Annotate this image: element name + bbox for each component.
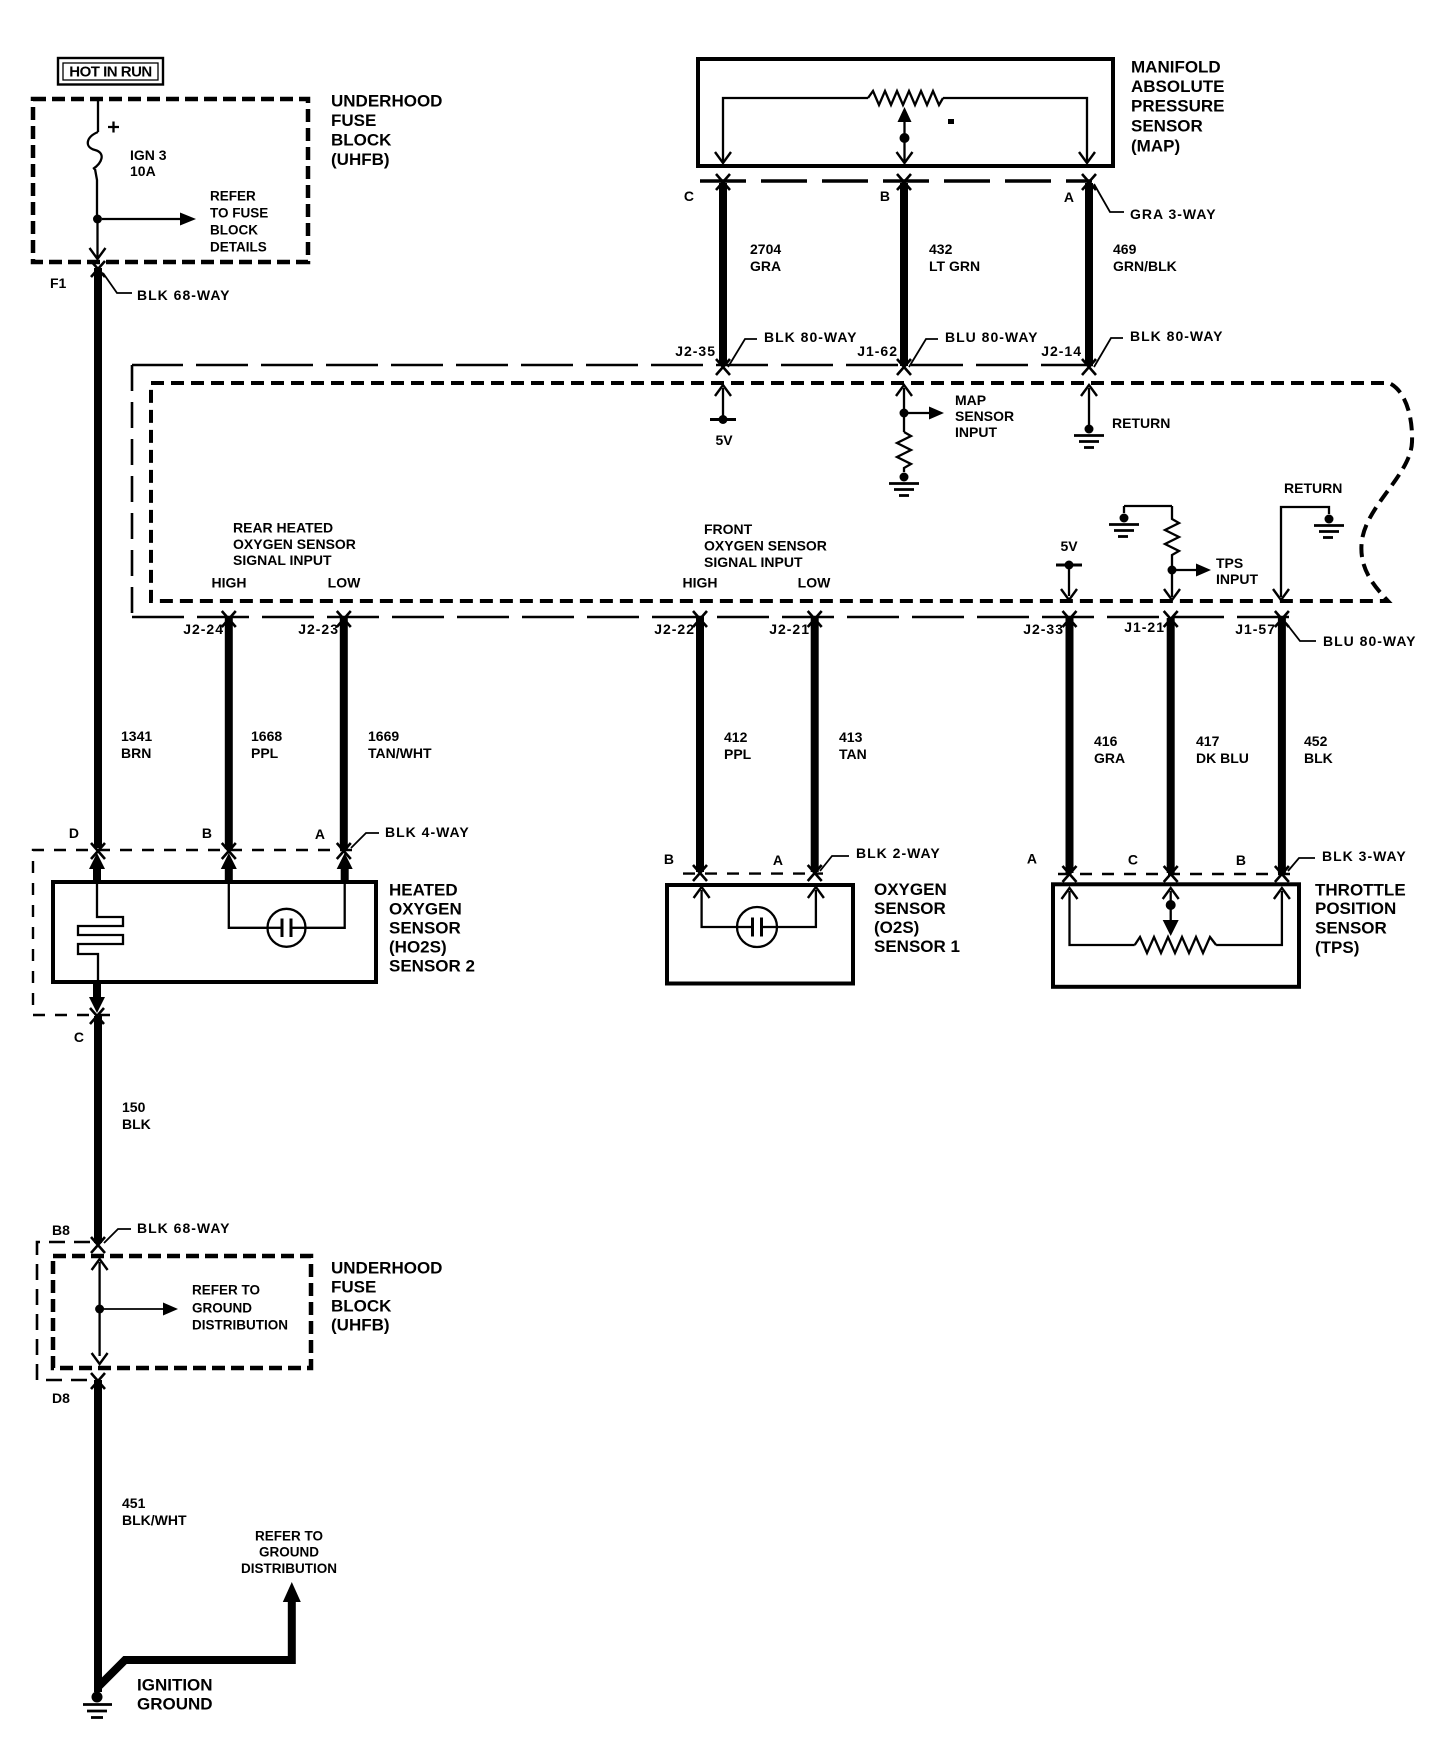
- HO2S pin stub D with arrow: [93, 862, 101, 884]
- wire 2704 GRA (MAP C to PCM J2-35): [719, 183, 727, 366]
- svg-text:(O2S): (O2S): [874, 918, 919, 937]
- svg-text:SENSOR: SENSOR: [874, 899, 946, 918]
- svg-text:SENSOR 2: SENSOR 2: [389, 957, 475, 976]
- terminal X at F1: [91, 261, 105, 277]
- connector label BLK 80-WAY at J2-14: [1094, 328, 1224, 367]
- potentiometer right lead: [943, 98, 1087, 162]
- svg-text:BLU 80-WAY: BLU 80-WAY: [945, 329, 1039, 345]
- terminal X at HO2S D: [91, 843, 105, 859]
- underhood fuse block UHFB (top) dashed box: [33, 99, 308, 262]
- underhood fuse block UHFB (lower) dashed box: [53, 1256, 311, 1368]
- svg-text:(HO2S): (HO2S): [389, 938, 447, 957]
- svg-text:J2-23: J2-23: [298, 621, 339, 637]
- UHFB lower connector bracket: [37, 1242, 90, 1380]
- svg-text:LOW: LOW: [328, 575, 361, 591]
- svg-text:REAR HEATED: REAR HEATED: [233, 520, 333, 536]
- node 5V (at J2-35): [710, 385, 736, 448]
- svg-text:469: 469: [1113, 241, 1137, 257]
- node TPS INPUT (at J1-21): [1164, 555, 1258, 600]
- terminal X at HO2S A: [337, 843, 351, 859]
- svg-text:A: A: [773, 852, 783, 868]
- svg-text:IGNITION: IGNITION: [137, 1676, 213, 1695]
- ground (PCM internal, at J2-14): [1074, 425, 1104, 448]
- O2 sense cell (circle with plates) pins B A: [229, 884, 345, 947]
- connector label BLK 68-WAY: [103, 273, 231, 303]
- svg-text:150: 150: [122, 1099, 146, 1115]
- svg-text:J1-21: J1-21: [1124, 619, 1165, 635]
- svg-text:OXYGEN: OXYGEN: [874, 880, 947, 899]
- svg-text:413: 413: [839, 729, 863, 745]
- svg-text:J2-24: J2-24: [183, 621, 224, 637]
- svg-text:C: C: [684, 188, 694, 204]
- svg-text:REFER TO: REFER TO: [192, 1283, 260, 1298]
- svg-text:DK BLU: DK BLU: [1196, 750, 1249, 766]
- svg-text:B: B: [880, 188, 890, 204]
- wire 150 BLK (HO2S C to UHFB B8): [94, 1016, 102, 1243]
- svg-text:TAN/WHT: TAN/WHT: [368, 745, 432, 761]
- svg-text:B: B: [1236, 852, 1246, 868]
- wire 469 GRN/BLK (MAP A to PCM J2-14): [1085, 183, 1093, 366]
- svg-text:TAN: TAN: [839, 746, 867, 762]
- svg-text:DISTRIBUTION: DISTRIBUTION: [192, 1318, 288, 1333]
- wire 413 TAN (J2-21 to O2S A): [811, 618, 819, 872]
- wire ground to TPS resistor: [1124, 505, 1172, 507]
- ground (PCM internal, MAP): [889, 473, 919, 496]
- label UNDERHOOD FUSE BLOCK (UHFB): [331, 92, 442, 170]
- svg-text:HIGH: HIGH: [683, 575, 718, 591]
- svg-text:5V: 5V: [715, 432, 733, 448]
- connector label BLK 68-WAY (B8): [104, 1220, 231, 1243]
- resistor inside PCM (TPS pull-up): [1165, 506, 1179, 597]
- svg-text:BLOCK: BLOCK: [210, 223, 258, 238]
- svg-text:FUSE: FUSE: [331, 111, 376, 130]
- wire into fuse: [97, 99, 99, 132]
- svg-text:A: A: [315, 826, 325, 842]
- svg-text:BLU 80-WAY: BLU 80-WAY: [1323, 633, 1417, 649]
- svg-text:OXYGEN SENSOR: OXYGEN SENSOR: [704, 538, 827, 554]
- label OXYGEN SENSOR (O2S) SENSOR 1: [874, 880, 960, 956]
- svg-text:416: 416: [1094, 733, 1118, 749]
- svg-text:2704: 2704: [750, 241, 781, 257]
- svg-text:GROUND: GROUND: [137, 1695, 213, 1714]
- svg-text:GROUND: GROUND: [259, 1545, 319, 1560]
- branch to ground distribution (thick L with arrow): [98, 1529, 337, 1692]
- terminal X at HO2S B: [222, 843, 236, 859]
- svg-text:FRONT: FRONT: [704, 521, 753, 537]
- TPS connector face BLK 3-WAY: [1058, 873, 1290, 875]
- ground (PCM internal, TPS top): [1109, 506, 1139, 537]
- svg-text:MANIFOLD: MANIFOLD: [1131, 58, 1221, 77]
- svg-text:LOW: LOW: [798, 575, 831, 591]
- svg-text:PRESSURE: PRESSURE: [1131, 97, 1225, 116]
- svg-text:SENSOR: SENSOR: [1131, 117, 1203, 136]
- svg-text:SIGNAL INPUT: SIGNAL INPUT: [704, 554, 803, 570]
- connector label BLK 3-WAY: [1288, 848, 1407, 871]
- label MANIFOLD ABSOLUTE PRESSURE SENSOR (MAP): [1131, 58, 1225, 156]
- svg-text:5V: 5V: [1060, 538, 1078, 554]
- svg-text:GRA 3-WAY: GRA 3-WAY: [1130, 206, 1217, 222]
- wire 432 LT GRN (MAP B to PCM J1-62): [900, 183, 908, 366]
- label THROTTLE POSITION SENSOR (TPS): [1315, 881, 1406, 958]
- MAP connector face line GRA 3-WAY: [700, 179, 1092, 183]
- svg-text:PPL: PPL: [251, 745, 279, 761]
- svg-text:BLOCK: BLOCK: [331, 1297, 392, 1316]
- label UNDERHOOD FUSE BLOCK (UHFB) lower: [331, 1259, 442, 1335]
- wire 1668 PPL (J2-24 to HO2S B): [225, 618, 233, 849]
- svg-text:1668: 1668: [251, 728, 282, 744]
- wire 412 PPL (J2-22 to O2S B): [696, 618, 704, 872]
- label FRONT OXYGEN SENSOR SIGNAL INPUT: [683, 521, 832, 591]
- svg-text:(MAP): (MAP): [1131, 137, 1180, 156]
- svg-text:MAP: MAP: [955, 392, 986, 408]
- svg-text:J2-33: J2-33: [1023, 621, 1064, 637]
- O2S box: [667, 885, 853, 984]
- svg-text:B: B: [664, 851, 674, 867]
- HO2S pin stub B with arrow: [225, 862, 233, 884]
- node RETURN (at J1-57): [1273, 480, 1342, 600]
- TPS wiper: [1163, 891, 1179, 936]
- arrowhead down right pin A: [1079, 152, 1095, 163]
- TPS potentiometer: [1062, 888, 1290, 953]
- label IGNITION GROUND: [137, 1676, 213, 1714]
- svg-text:BLK 3-WAY: BLK 3-WAY: [1322, 848, 1407, 864]
- TPS box: [1053, 884, 1299, 987]
- svg-text:B: B: [202, 825, 212, 841]
- wire F1 to HO2S pin D (thick): [94, 268, 102, 848]
- svg-text:(UHFB): (UHFB): [331, 150, 390, 169]
- O2S internal arrows and cell: [694, 887, 824, 947]
- node 5V (at J2-33): [1056, 538, 1082, 600]
- connector label BLK 80-WAY at J2-35: [728, 329, 858, 367]
- svg-text:TO FUSE: TO FUSE: [210, 206, 268, 221]
- svg-text:C: C: [74, 1029, 84, 1045]
- svg-text:IGN 3: IGN 3: [130, 147, 167, 163]
- label REAR HEATED OXYGEN SENSOR SIGNAL INPUT: [212, 520, 362, 591]
- potentiometer in MAP: left lead: [723, 98, 868, 162]
- svg-text:F1: F1: [50, 275, 67, 291]
- internal wire with junction (lower UHFB): [92, 1259, 108, 1364]
- terminal X at D8: [91, 1373, 105, 1389]
- svg-text:UNDERHOOD: UNDERHOOD: [331, 1259, 442, 1278]
- connector label BLU 80-WAY (bottom): [1286, 623, 1417, 649]
- wire 452 BLK (J1-57 to TPS B): [1278, 618, 1286, 873]
- connector label BLK 2-WAY: [820, 845, 941, 871]
- svg-text:(UHFB): (UHFB): [331, 1316, 390, 1335]
- svg-text:HEATED: HEATED: [389, 881, 458, 900]
- svg-text:J2-14: J2-14: [1041, 343, 1082, 359]
- wire 416 GRA (J2-33 to TPS A): [1066, 618, 1074, 873]
- connector label GRA 3-WAY: [1094, 184, 1217, 222]
- svg-text:BLK 68-WAY: BLK 68-WAY: [137, 287, 231, 303]
- svg-text:INPUT: INPUT: [1216, 571, 1258, 587]
- svg-text:D8: D8: [52, 1390, 70, 1406]
- svg-text:THROTTLE: THROTTLE: [1315, 881, 1406, 900]
- terminal X at HO2S C: [90, 1008, 104, 1024]
- PCM connector bracket (outer dash-dot): [132, 364, 1093, 367]
- svg-text:REFER TO: REFER TO: [255, 1529, 323, 1544]
- svg-text:BLK/WHT: BLK/WHT: [122, 1512, 187, 1528]
- svg-text:INPUT: INPUT: [955, 424, 997, 440]
- svg-text:GRN/BLK: GRN/BLK: [1113, 258, 1177, 274]
- svg-text:A: A: [1027, 850, 1037, 866]
- svg-text:J1-62: J1-62: [857, 343, 898, 359]
- node MAP SENSOR INPUT (at J1-62): [896, 385, 1014, 440]
- svg-text:412: 412: [724, 729, 748, 745]
- svg-text:BLK 2-WAY: BLK 2-WAY: [856, 845, 941, 861]
- svg-text:PPL: PPL: [724, 746, 752, 762]
- wire fuse to junction dot: [95, 169, 97, 219]
- MAP sensor box: [698, 59, 1113, 166]
- svg-text:RETURN: RETURN: [1284, 480, 1342, 496]
- svg-text:J2-35: J2-35: [675, 343, 716, 359]
- connector label BLU 80-WAY at J1-62: [909, 329, 1039, 367]
- potentiometer resistor zigzag: [868, 91, 943, 105]
- resistor inside PCM (MAP pull-up): [897, 432, 911, 472]
- svg-text:DETAILS: DETAILS: [210, 240, 267, 255]
- svg-text:1341: 1341: [121, 728, 152, 744]
- svg-text:BLK: BLK: [122, 1116, 151, 1132]
- connector label BLK 4-WAY: [351, 824, 470, 848]
- arrow to REFER TO GROUND DISTRIBUTION (lower UHFB): [104, 1283, 288, 1333]
- arrowhead down left pin C: [715, 152, 731, 163]
- svg-text:432: 432: [929, 241, 953, 257]
- svg-text:HIGH: HIGH: [212, 575, 247, 591]
- svg-text:GRA: GRA: [1094, 750, 1125, 766]
- svg-text:B8: B8: [52, 1222, 70, 1238]
- svg-text:BLOCK: BLOCK: [331, 131, 392, 150]
- svg-text:DISTRIBUTION: DISTRIBUTION: [241, 1561, 337, 1576]
- svg-text:REFER: REFER: [210, 189, 256, 204]
- svg-text:BLK: BLK: [1304, 750, 1333, 766]
- svg-text:GROUND: GROUND: [192, 1301, 252, 1316]
- svg-text:10A: 10A: [130, 163, 156, 179]
- svg-text:417: 417: [1196, 733, 1220, 749]
- node RETURN (at J2-14): [1081, 385, 1170, 431]
- svg-text:OXYGEN SENSOR: OXYGEN SENSOR: [233, 536, 356, 552]
- HO2S bottom stub pin C with down arrow: [93, 982, 101, 1001]
- ground (PCM internal, TPS return): [1314, 515, 1344, 538]
- svg-text:FUSE: FUSE: [331, 1278, 376, 1297]
- svg-text:(TPS): (TPS): [1315, 938, 1359, 957]
- svg-text:LT GRN: LT GRN: [929, 258, 980, 274]
- svg-text:SENSOR: SENSOR: [1315, 919, 1387, 938]
- fuse IGN 3 10A: [88, 122, 167, 180]
- svg-text:J2-22: J2-22: [654, 621, 695, 637]
- svg-text:1669: 1669: [368, 728, 399, 744]
- svg-text:BLK 68-WAY: BLK 68-WAY: [137, 1220, 231, 1236]
- svg-text:BLK 4-WAY: BLK 4-WAY: [385, 824, 470, 840]
- svg-text:BLK 80-WAY: BLK 80-WAY: [764, 329, 858, 345]
- HO2S connector face BLK 4-WAY (dashed wrap): [33, 850, 352, 1015]
- svg-text:UNDERHOOD: UNDERHOOD: [331, 92, 442, 111]
- wiper arrow of potentiometer: [898, 107, 912, 122]
- O2S connector face BLK 2-WAY: [683, 872, 823, 874]
- svg-text:GRA: GRA: [750, 258, 781, 274]
- PCM module outline (inner dashed with torn right edge): [151, 383, 1412, 601]
- svg-text:SENSOR 1: SENSOR 1: [874, 937, 960, 956]
- svg-text:C: C: [1128, 851, 1138, 867]
- stray scan mark: [948, 119, 954, 124]
- svg-text:BRN: BRN: [121, 745, 151, 761]
- junction dot: [93, 215, 102, 224]
- svg-text:SENSOR: SENSOR: [389, 919, 461, 938]
- ignition ground symbol: [83, 1692, 112, 1718]
- hot-in-run banner: [58, 58, 163, 85]
- arrow to REFER TO FUSE BLOCK DETAILS: [102, 189, 268, 255]
- label HEATED OXYGEN SENSOR (HO2S) SENSOR 2: [389, 881, 475, 976]
- svg-text:451: 451: [122, 1495, 146, 1511]
- svg-text:SENSOR: SENSOR: [955, 408, 1014, 424]
- svg-text:ABSOLUTE: ABSOLUTE: [1131, 77, 1225, 96]
- svg-text:A: A: [1064, 189, 1074, 205]
- svg-text:OXYGEN: OXYGEN: [389, 900, 462, 919]
- heater element (meander): [78, 884, 123, 982]
- wire 1669 TAN/WHT (J2-23 to HO2S A): [340, 618, 348, 849]
- svg-text:TPS: TPS: [1216, 555, 1243, 571]
- HO2S box: [53, 882, 376, 982]
- wire 417 DK BLU (J1-21 to TPS C): [1167, 618, 1175, 873]
- svg-text:POSITION: POSITION: [1315, 899, 1396, 918]
- svg-text:HOT IN RUN: HOT IN RUN: [69, 63, 152, 80]
- HO2S pin stub A with arrow: [341, 862, 349, 884]
- svg-text:D: D: [69, 825, 79, 841]
- terminal X at B8: [91, 1237, 105, 1253]
- svg-text:J2-21: J2-21: [769, 621, 810, 637]
- svg-text:J1-57: J1-57: [1235, 621, 1276, 637]
- svg-text:RETURN: RETURN: [1112, 415, 1170, 431]
- svg-text:SIGNAL INPUT: SIGNAL INPUT: [233, 552, 332, 568]
- svg-text:BLK 80-WAY: BLK 80-WAY: [1130, 328, 1224, 344]
- wire down out of fuse block: [96, 219, 98, 258]
- svg-text:452: 452: [1304, 733, 1328, 749]
- arrowhead down at box edge: [90, 248, 106, 259]
- wire 451 BLK/WHT (D8 to ignition ground): [94, 1380, 102, 1692]
